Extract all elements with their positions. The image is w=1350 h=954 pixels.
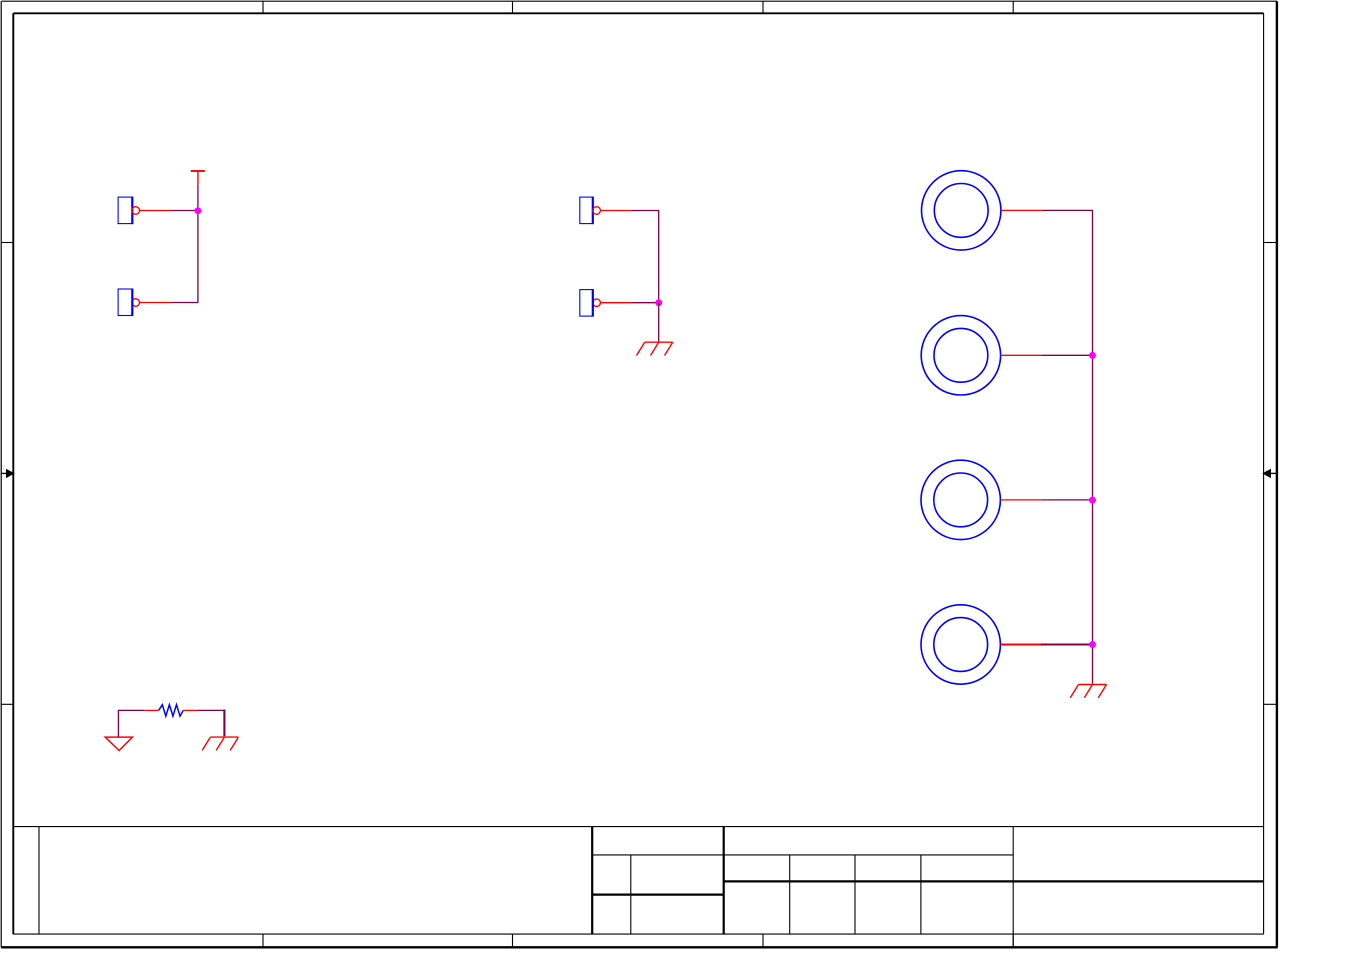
junction node B (655, 299, 662, 306)
MH3 red pin lead (1000, 499, 1042, 501)
wire MH4 to node E (thick) (1041, 644, 1093, 646)
power flag bar (191, 170, 205, 172)
wire from J2 pin1 to vertical (632, 211, 659, 303)
connector J2 pin 1 red pin lead (600, 210, 632, 212)
connector J2 pin 2 circle (593, 299, 601, 307)
junction node A (194, 207, 201, 214)
centre mark left arrow (1, 470, 13, 477)
junction node C (1089, 352, 1096, 359)
power flag stem (197, 171, 199, 184)
MH4 red pin lead (thick) (1000, 643, 1041, 645)
wire MH3 to node D (1043, 499, 1093, 501)
ground symbol GND2 (1070, 685, 1106, 698)
wire GND3 up to resistor R1 left (118, 710, 144, 737)
connector J2 pin 2 red pin lead (600, 302, 632, 304)
wire MH1 to right bus corner and down to ground (1043, 210, 1093, 683)
connector J2 pin 1 circle (593, 207, 601, 215)
connector J1 pin 1 circle (132, 207, 140, 215)
mounting hole MH2 (921, 316, 1000, 395)
wire R1 right to ground GND4 horizontal (198, 709, 224, 711)
zone dividers bottom band (263, 934, 1013, 947)
ground symbol GND1 (637, 342, 673, 355)
connector J1 pin 1 body (118, 197, 132, 225)
junction node E (1089, 641, 1096, 648)
connector J1 pin 2 red pin lead (140, 302, 173, 304)
ground symbol GND4 (202, 737, 238, 750)
MH1 red pin lead (1001, 209, 1043, 211)
resistor R1 right red pin lead (183, 709, 198, 711)
zone dividers left band (1, 243, 13, 705)
connector J2 pin 1 body (580, 197, 593, 225)
wire MH2 to node C (1043, 354, 1093, 356)
mounting hole MH4 (921, 605, 1000, 684)
wire node B to ground (658, 303, 660, 342)
title block lines (13, 827, 1263, 948)
mounting hole MH3 (921, 460, 1000, 539)
earth triangle ground GND3 (105, 737, 132, 750)
zone dividers right band (1264, 243, 1277, 705)
resistor R1 left red pin lead (145, 709, 159, 711)
wire from J1 pin1 to node A (172, 210, 198, 212)
connector J2 pin 2 body (580, 289, 593, 317)
wire from J2 pin 2 to node B (632, 302, 659, 304)
zone dividers top band (263, 1, 1013, 13)
mounting hole MH1 (922, 171, 1001, 250)
MH2 red pin lead (1001, 354, 1043, 356)
wire from power flag down through node A to J1 pin2 level (172, 184, 198, 302)
centre mark right arrow (1264, 470, 1277, 477)
junction node D (1089, 497, 1096, 504)
connector J1 pin 2 circle (132, 299, 140, 307)
resistor R1 zigzag body (159, 705, 184, 716)
wire R1 right vertical (thick) (223, 710, 225, 737)
connector J1 pin 2 body (118, 289, 132, 317)
connector J1 pin 1 red pin lead (140, 210, 173, 212)
